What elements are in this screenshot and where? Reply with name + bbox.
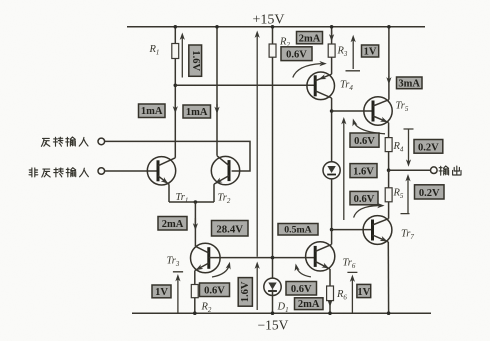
measurement arrow 0.2V lower	[401, 178, 410, 214]
node: R2 rail junction	[193, 311, 197, 315]
inverting input terminal	[98, 138, 105, 145]
wire: R1 to Tr1 collector	[174, 59, 176, 158]
node: R1 bottom junction	[174, 84, 178, 88]
value box 1.6V right	[350, 164, 377, 178]
wire: junction to Tr7 base	[332, 229, 373, 231]
resistor R4	[385, 138, 392, 152]
+15V supply rail	[127, 26, 425, 28]
wire: emitter join	[169, 201, 214, 203]
current arrow 2mA top	[329, 34, 334, 41]
wire: output node to R5	[388, 170, 390, 188]
label: non-inverting input (fei fan zhuan shu ru)	[29, 168, 88, 177]
current arrow 3mA	[386, 77, 391, 84]
node: output junction	[387, 168, 391, 172]
curved arrow Tr4	[293, 64, 321, 78]
curved arrow Tr5	[354, 122, 385, 134]
wire: junction to Tr3 collector	[194, 202, 196, 246]
value box 0.2V lower	[415, 185, 445, 199]
wire: output node to terminal	[389, 169, 431, 171]
diode D2 (bias)	[323, 162, 340, 179]
curved arrow Tr7	[354, 206, 379, 218]
node: bias chain rail junction	[271, 25, 275, 29]
wire: Tr4 collector down to diode	[331, 98, 333, 162]
value box 1V bottom-right	[357, 284, 371, 297]
current arrow through R6	[327, 300, 332, 307]
measurement arrow 1.6V right	[343, 121, 345, 221]
value box 1mA left	[139, 104, 166, 118]
value box 3mA	[397, 77, 423, 89]
resistor R1	[172, 44, 179, 59]
measurement arrow 1V bottom-right	[347, 272, 357, 312]
transistor Tr5	[364, 97, 392, 125]
wire: D1 to rail	[272, 296, 274, 314]
value box 2mA D1	[295, 298, 324, 310]
value box 1mA right	[183, 105, 211, 118]
transistor Tr4 (PNP)	[307, 72, 335, 100]
wire: R1 node to Tr4 base	[175, 84, 315, 86]
measurement arrow 1.6V top-left	[181, 36, 183, 78]
diode D1	[264, 278, 281, 295]
wire: Tr3 base to Tr6 base	[209, 257, 315, 259]
resistor R2	[191, 285, 198, 298]
wire: rail to R3	[331, 27, 333, 44]
resistor R3	[328, 44, 335, 57]
output terminal	[431, 167, 438, 174]
wire: Tr6 collector up	[331, 230, 333, 245]
node: Tr5 collector rail junction	[387, 25, 391, 29]
label: inverting input (fan zhuan shu ru)	[41, 137, 88, 146]
wire: bias resistor down to D1 node	[272, 57, 274, 278]
label: output (shu chu)	[439, 166, 461, 175]
wire: Tr2 emitter down	[213, 184, 215, 202]
wire: rail to R1	[174, 27, 176, 44]
-15V supply rail	[132, 312, 431, 314]
node: D1 rail junction	[271, 311, 275, 315]
wire: R4 to output node	[388, 152, 390, 171]
value box 0.5mA	[278, 224, 318, 236]
value box 1.6V rotated bottom	[238, 278, 252, 307]
wire: Tr5 emitter to R4	[388, 123, 390, 138]
resistor R5	[385, 188, 392, 202]
wire: R2 to rail	[194, 298, 196, 314]
node: Tr7 emitter rail junction	[387, 311, 391, 315]
current arrow 1mA right	[214, 107, 219, 114]
wire: non-inverting input to Tr1 base	[104, 170, 158, 172]
node: R6 rail junction	[328, 311, 332, 315]
non-inverting input terminal	[98, 168, 105, 175]
value box 2mA bottom-left	[158, 217, 187, 231]
measurement arrow 1V top-right	[346, 38, 361, 71]
transistor Tr6	[306, 242, 335, 271]
node: emitter join junction	[194, 200, 198, 204]
wire: junction to Tr5 base	[332, 110, 373, 112]
node: R3 rail junction	[330, 25, 334, 29]
wire: Tr1 emitter down	[168, 184, 170, 202]
wire: rail to Tr2 collector	[216, 27, 218, 156]
value box 0.2V upper	[414, 140, 443, 154]
resistor R2 top (bias)	[269, 44, 276, 57]
transistor Tr2 (mirrored)	[211, 156, 239, 186]
node: D1 top junction	[271, 256, 275, 260]
wire: diode to Tr6 collector junction	[331, 179, 333, 230]
transistor Tr3 (mirrored)	[191, 243, 221, 273]
value box 1V bottom-left	[152, 285, 171, 298]
node: Tr2 collector rail junction	[215, 25, 219, 29]
current arrow 2mA tail	[193, 223, 198, 230]
wire: inverting input to Tr2 base corner	[104, 141, 250, 171]
value box 0.6V top	[281, 47, 312, 61]
current arrow 1mA left	[173, 106, 178, 113]
wire: Tr3 emitter to R2	[194, 271, 196, 285]
node: R1 top junction	[174, 25, 178, 29]
wire: Tr6 emitter to R6	[329, 269, 331, 286]
measurement arrow 1V bottom-left	[173, 272, 183, 313]
value box 1V top-right	[362, 45, 379, 58]
value box 2mA top	[297, 32, 323, 45]
measurement arrow 0.2V upper	[404, 129, 414, 163]
wire: R5 to Tr7 collector	[388, 202, 390, 219]
value box 0.6V right-lower	[350, 191, 378, 205]
wire: rail to R2t (bias chain)	[272, 27, 274, 44]
value box 28.4V	[212, 221, 249, 237]
value box 0.6V D1	[286, 282, 317, 296]
value box 0.6V right-upper	[350, 133, 379, 147]
curved arrow Tr6	[296, 267, 311, 277]
wire: R6 to rail	[329, 301, 331, 314]
transistor Tr7	[363, 216, 392, 245]
measurement arrow 1.6V bottom	[256, 265, 258, 310]
wire: Tr5 collector to rail	[388, 27, 390, 100]
wire: Tr7 emitter to rail	[387, 242, 389, 313]
value box 1.6V rotated top-left	[189, 45, 202, 76]
resistor R6	[327, 286, 334, 301]
transistor Tr1	[147, 157, 175, 186]
wire: R3 to Tr4 emitter	[331, 57, 333, 74]
node: Tr5 base junction	[330, 109, 334, 113]
node: Tr7 base junction	[330, 228, 334, 232]
measurement arrow 28.4V	[256, 34, 258, 257]
curved arrow Tr3	[212, 265, 229, 277]
value box 0.6V Tr3	[200, 283, 230, 297]
